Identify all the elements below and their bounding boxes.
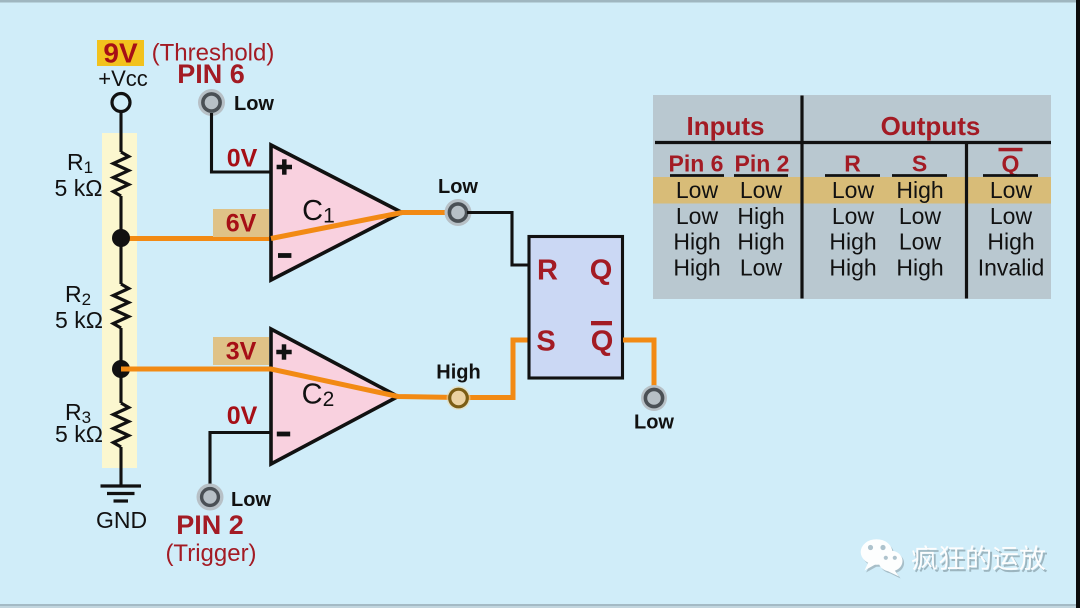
comparator C1	[271, 145, 402, 280]
terminal C1 output	[445, 199, 472, 226]
svg-text:Low: Low	[899, 229, 942, 255]
table horizontal rule	[655, 141, 1051, 144]
svg-text:GND: GND	[96, 507, 147, 533]
resistor R1	[113, 152, 128, 196]
ground	[101, 486, 142, 501]
value label 3V box	[213, 337, 269, 366]
svg-text:0V: 0V	[227, 402, 258, 430]
C2 plus input marker	[276, 344, 291, 359]
svg-text:S: S	[912, 151, 927, 177]
wire Vcc terminal to R1	[119, 110, 122, 152]
svg-text:Low: Low	[990, 177, 1033, 203]
value label 9V	[97, 38, 144, 69]
wire PIN 6 to C1 plus input	[212, 113, 272, 172]
node B junction dot	[112, 360, 130, 378]
svg-text:High: High	[673, 229, 720, 255]
svg-text:Low: Low	[231, 489, 271, 511]
truth table panel	[653, 95, 1051, 299]
table row 1	[676, 177, 1033, 203]
C1 minus input marker	[278, 253, 291, 258]
wire 6V net through C1 to output (orange)	[271, 213, 459, 239]
wire R3 to ground	[119, 447, 122, 486]
svg-text:High: High	[829, 229, 876, 255]
svg-text:PIN 6: PIN 6	[177, 59, 245, 89]
svg-text:High: High	[987, 229, 1034, 255]
svg-text:Low: Low	[990, 203, 1033, 229]
svg-text:Low: Low	[438, 176, 478, 198]
wire latch Q-bar output (orange)	[623, 340, 654, 390]
svg-text:3V: 3V	[226, 338, 257, 366]
svg-text:5 kΩ: 5 kΩ	[55, 307, 103, 333]
resistor chain highlight strip	[102, 133, 137, 468]
svg-text:Q: Q	[1002, 151, 1020, 177]
svg-text:5 kΩ: 5 kΩ	[55, 421, 103, 447]
column header Q-bar	[999, 148, 1023, 177]
table vertical rule S/Qbar	[965, 143, 968, 299]
svg-text:Pin 6: Pin 6	[669, 151, 724, 177]
wire node B to C2 through to S input (orange, 3V net)	[121, 369, 458, 398]
svg-text:High: High	[896, 177, 943, 203]
column header underlines	[670, 174, 1038, 177]
wire C1 output to latch R input	[467, 213, 529, 266]
svg-text:Low: Low	[740, 177, 783, 203]
terminal Q-bar output	[641, 385, 667, 411]
C1 plus input marker	[277, 159, 292, 174]
svg-text:Outputs: Outputs	[881, 111, 981, 141]
table vertical rule inputs/outputs	[800, 96, 803, 299]
svg-text:High: High	[896, 255, 943, 281]
wire node A to C1 (orange, 6V net)	[121, 213, 459, 239]
wire PIN 2 to C2 minus input	[210, 433, 271, 489]
wire node B to R3	[119, 369, 122, 403]
svg-text:Low: Low	[676, 177, 719, 203]
C2 minus input marker	[277, 432, 290, 437]
table row 2	[676, 203, 1033, 229]
watermark wechat logo	[861, 539, 904, 578]
svg-text:+Vcc: +Vcc	[98, 66, 148, 91]
svg-text:Invalid: Invalid	[978, 255, 1044, 281]
wire node A to R2	[119, 238, 122, 284]
table row 3	[673, 229, 1034, 255]
svg-text:High: High	[737, 203, 784, 229]
svg-text:High: High	[673, 255, 720, 281]
latch pin Q-bar	[591, 321, 614, 358]
svg-text:Low: Low	[832, 177, 875, 203]
SR latch U1	[529, 237, 623, 379]
terminal PIN 2	[197, 484, 224, 511]
table row 4	[673, 255, 1044, 281]
svg-text:R: R	[844, 151, 861, 177]
watermark text	[912, 545, 1047, 572]
svg-text:Low: Low	[899, 203, 942, 229]
svg-text:S: S	[536, 326, 555, 358]
svg-text:6V: 6V	[226, 210, 257, 238]
wire R1 to node A	[119, 196, 122, 238]
svg-text:9V: 9V	[103, 38, 138, 69]
value label 6V box	[213, 209, 269, 238]
terminal PIN 6	[198, 89, 225, 116]
svg-text:Low: Low	[832, 203, 875, 229]
svg-text:R: R	[537, 255, 558, 287]
truth table highlighted row	[653, 177, 1051, 204]
terminal +Vcc	[112, 94, 130, 112]
svg-text:Low: Low	[634, 412, 674, 434]
svg-text:Inputs: Inputs	[687, 111, 765, 141]
svg-text:High: High	[829, 255, 876, 281]
svg-text:High: High	[436, 362, 480, 384]
svg-text:Pin 2: Pin 2	[735, 151, 790, 177]
terminal C2 output (high)	[447, 386, 471, 410]
node A junction dot	[112, 229, 130, 247]
resistor R3	[113, 403, 128, 447]
wire R2 to node B	[119, 328, 122, 369]
svg-text:Q: Q	[591, 326, 614, 358]
svg-text:0V: 0V	[227, 145, 258, 173]
svg-text:Q: Q	[590, 255, 613, 287]
svg-text:Low: Low	[740, 255, 783, 281]
svg-text:High: High	[737, 229, 784, 255]
svg-text:5 kΩ: 5 kΩ	[55, 175, 103, 201]
svg-text:Low: Low	[676, 203, 719, 229]
resistor R2	[113, 284, 128, 328]
svg-text:PIN 2: PIN 2	[176, 510, 244, 540]
svg-text:(Trigger): (Trigger)	[165, 540, 256, 567]
svg-text:Low: Low	[234, 93, 274, 115]
comparator C2	[271, 329, 398, 464]
